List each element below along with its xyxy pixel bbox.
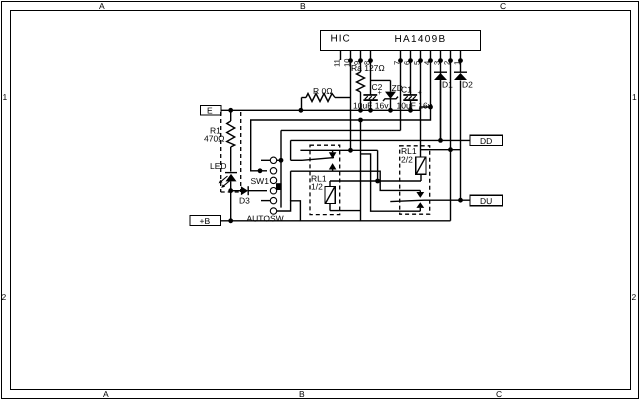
relay RL1 1/2 NC contact arrow xyxy=(329,163,337,169)
wire coil 2/2 top line to pin2/D2 xyxy=(421,149,461,151)
svg-text:C: C xyxy=(496,389,502,399)
svg-text:A: A xyxy=(103,389,109,399)
svg-text:Ra 127Ω: Ra 127Ω xyxy=(351,63,385,73)
svg-text:2: 2 xyxy=(632,292,637,302)
svg-text:11: 11 xyxy=(333,59,342,67)
svg-text:1/2: 1/2 xyxy=(311,182,323,192)
pin 1 line (to D2 / DU) xyxy=(460,51,462,73)
relay RL1 2/2 armature / DU wire xyxy=(390,200,424,201)
wire pin10 contact feed line y=150 xyxy=(300,149,377,151)
relay coil RL1 1/2 xyxy=(325,187,335,204)
pin 6 line (to C1) xyxy=(410,51,412,95)
terminal DD box xyxy=(470,135,503,145)
wire DD to relay 1/2 armature xyxy=(290,140,292,160)
relay RL1 1/2 NO contact arrow xyxy=(332,150,334,152)
svg-text:1: 1 xyxy=(632,92,637,102)
relay RL1 1/2 dashed box xyxy=(310,145,340,214)
dashed enclosure around R1 and LED xyxy=(220,112,222,192)
HIC hybrid IC U1 box xyxy=(321,31,481,51)
wire LED to +B rail xyxy=(230,181,232,220)
svg-text:A: A xyxy=(99,1,105,11)
wire +B commutation line y=171 xyxy=(291,171,421,190)
svg-text:DD: DD xyxy=(480,136,492,146)
svg-text:D2: D2 xyxy=(462,80,473,90)
wire switch common vertical xyxy=(280,130,282,207)
wire HIC pin7 to switch column xyxy=(281,129,401,131)
LED emission arrows xyxy=(221,176,228,182)
relay coil RL1 2/2 xyxy=(416,157,426,174)
terminal +B box xyxy=(190,216,221,226)
pin 8 line (to C2) xyxy=(370,51,372,95)
svg-text:HIC: HIC xyxy=(331,34,351,45)
pin 3 line (to D1 and DD wire) xyxy=(440,51,442,141)
svg-text:B: B xyxy=(300,1,306,11)
relay RL1 2/2 NO contact arrow xyxy=(419,190,421,192)
svg-text:LED: LED xyxy=(210,161,227,171)
svg-text:AUTOSW: AUTOSW xyxy=(247,214,284,224)
wire stub contact 1 xyxy=(261,159,270,161)
svg-text:B: B xyxy=(299,389,305,399)
pin junction dots row xyxy=(348,58,463,63)
pin 9 line (to Ra) xyxy=(360,51,362,73)
svg-text:D3: D3 xyxy=(239,196,250,206)
diode D2 xyxy=(454,71,467,73)
svg-text:SW1: SW1 xyxy=(251,176,270,186)
terminal E box xyxy=(201,106,222,116)
svg-text:2/2: 2/2 xyxy=(401,155,413,165)
wire E ground bus y=110 xyxy=(221,107,431,171)
node LED/D3 junction xyxy=(228,188,233,193)
svg-text:+: + xyxy=(418,88,423,97)
relay RL1 2/2 NC contact arrow xyxy=(416,202,424,208)
wire coil interconnect y=181 xyxy=(330,180,421,182)
node E bus junctions xyxy=(228,105,433,174)
pin 4 line (to ground bus jog) xyxy=(430,51,432,108)
svg-text:DU: DU xyxy=(480,196,492,206)
terminal DU box xyxy=(470,195,503,205)
svg-text:+B: +B xyxy=(200,216,211,226)
svg-text:10uF 16v: 10uF 16v xyxy=(397,101,433,111)
switch pole square xyxy=(276,183,282,190)
svg-text:C1: C1 xyxy=(401,85,412,95)
relay RL1 2/2 dashed box xyxy=(400,146,430,214)
pin 2 line (to +B rail) xyxy=(450,51,452,221)
pin 10 line (to R 0 ohm and relay contact line) xyxy=(350,51,352,151)
wire +B rail xyxy=(221,220,451,222)
wire stub contact 5 xyxy=(261,200,270,202)
svg-text:2: 2 xyxy=(2,292,7,302)
diode D1 xyxy=(434,71,447,73)
wire ground branch to RL1 2/2 NC xyxy=(360,120,362,221)
svg-text:470Ω: 470Ω xyxy=(204,134,225,144)
wire AUTOSW to +B jog xyxy=(277,201,301,221)
wire DD line xyxy=(291,139,470,141)
svg-text:C: C xyxy=(500,1,506,11)
svg-text:+: + xyxy=(378,88,383,97)
pin 11 stub xyxy=(340,51,342,61)
diode D3 xyxy=(231,190,241,192)
pin 5 line (to RL1 2/2 coil) xyxy=(420,51,422,158)
svg-text:D1: D1 xyxy=(442,80,453,90)
svg-text:E: E xyxy=(207,106,213,116)
svg-text:1: 1 xyxy=(3,92,8,102)
relay RL1 1/2 armature xyxy=(302,158,334,161)
svg-text:HA1409B: HA1409B xyxy=(395,34,447,45)
pin 7 line xyxy=(400,51,402,131)
